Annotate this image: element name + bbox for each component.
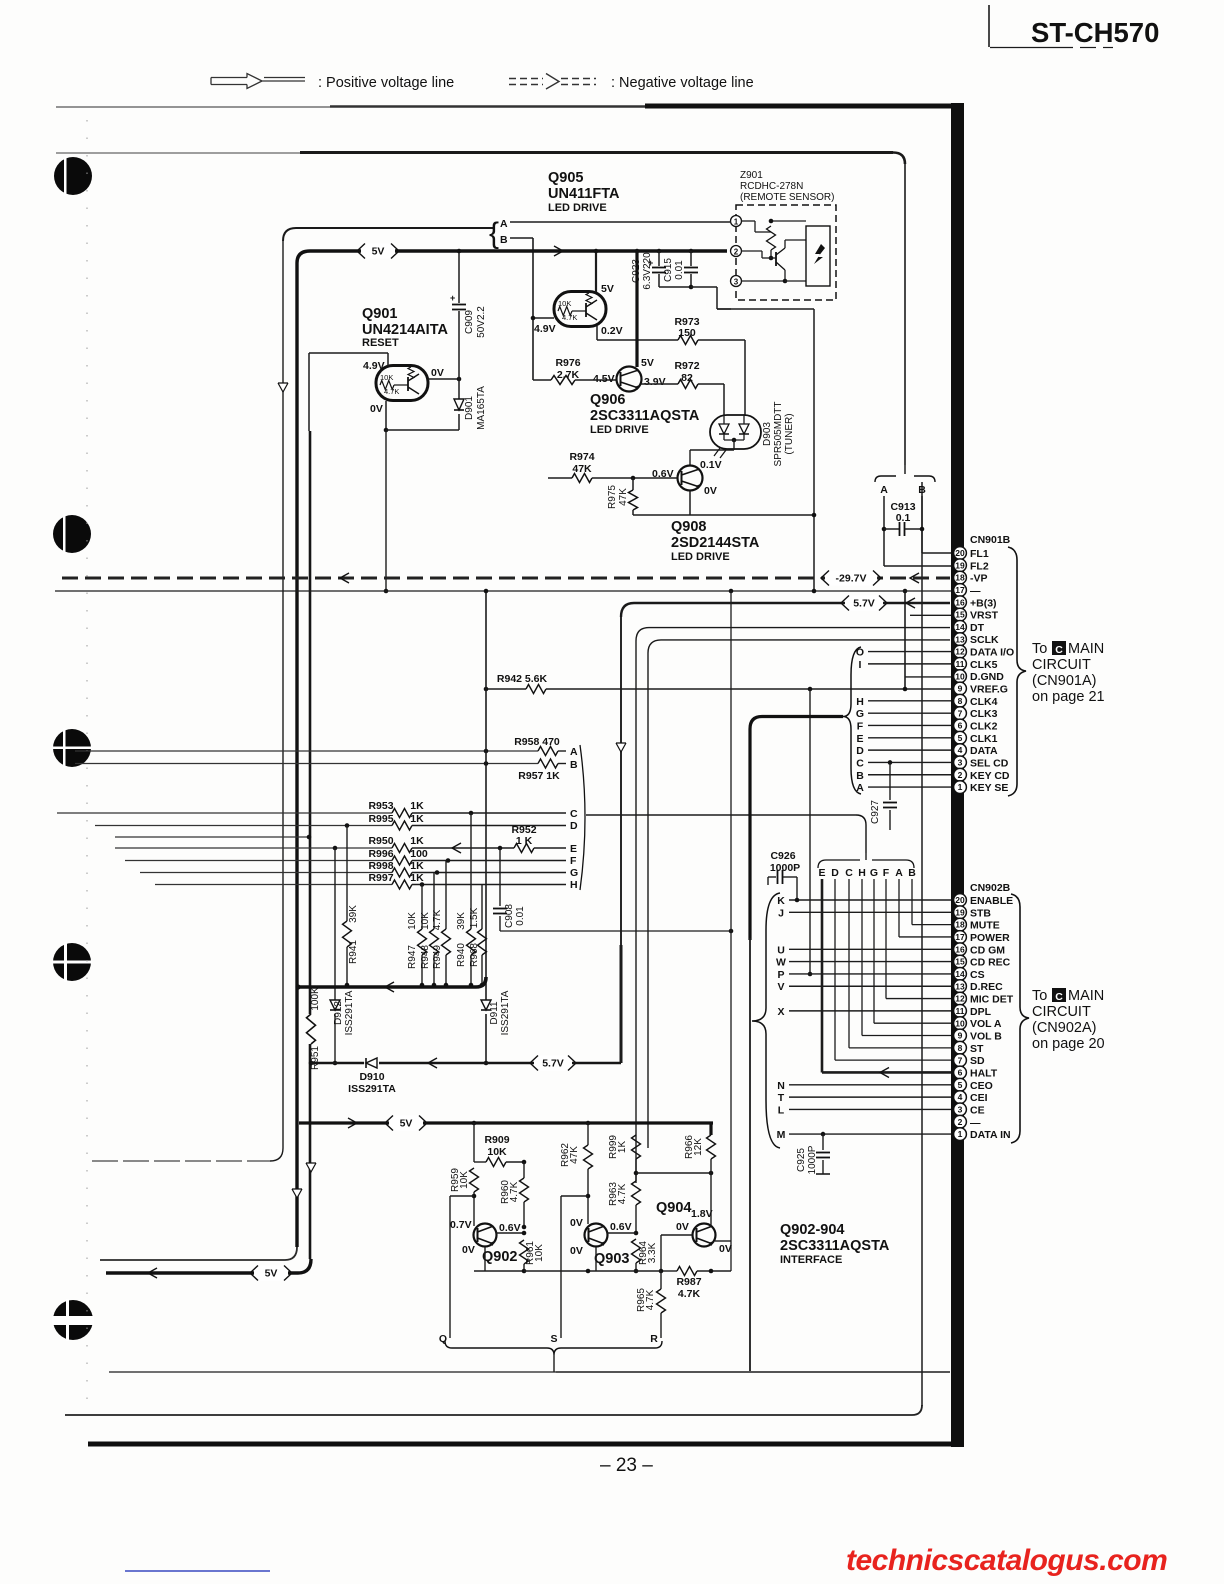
- label 4.9V Q901: [363, 360, 385, 372]
- title ST-CH570: [1031, 17, 1159, 48]
- svg-text:CLK5: CLK5: [970, 659, 998, 671]
- svg-text:3: 3: [958, 758, 963, 768]
- frame bottom thin line: [65, 1405, 922, 1415]
- arrow on 5.7V rail: [906, 598, 915, 608]
- svg-text:0V: 0V: [431, 367, 444, 379]
- svg-text:0.01: 0.01: [674, 260, 685, 280]
- title separator vertical line: [989, 5, 1113, 48]
- label C909: [464, 306, 487, 338]
- svg-text:4.7K: 4.7K: [384, 387, 399, 396]
- svg-text:B: B: [856, 770, 864, 782]
- svg-text:150: 150: [678, 327, 696, 339]
- svg-text:DATA I/O: DATA I/O: [970, 647, 1014, 659]
- svg-text:CLK3: CLK3: [970, 708, 998, 720]
- wire Q904 collector: [710, 1173, 712, 1226]
- node B top to CN902B pin 18: [908, 867, 951, 925]
- letter A mid: [570, 746, 578, 758]
- svg-text:POWER: POWER: [970, 932, 1010, 944]
- svg-text:4.9V: 4.9V: [534, 323, 556, 335]
- wire D.GND stub: [905, 676, 951, 678]
- CN901B pin 9 VREF.G: [954, 682, 1008, 695]
- wire C-bottom to Z901 pin3: [659, 281, 731, 309]
- svg-text:0V: 0V: [570, 1217, 583, 1229]
- Z901 pin 3: [731, 276, 742, 287]
- svg-text:ISS291TA: ISS291TA: [348, 1083, 396, 1095]
- label 0.2V Q905: [601, 325, 623, 337]
- arrow on x312: [306, 1163, 316, 1172]
- label R968 1.5K: [469, 907, 480, 967]
- CN902B pin 15 CD REC: [954, 955, 1011, 968]
- CN901B pin 12 DATA I/O: [954, 645, 1015, 658]
- wire x422 with R947: [418, 885, 427, 988]
- svg-text:W: W: [776, 957, 786, 969]
- labels Q902 voltages: [450, 1219, 521, 1256]
- CN902B pin 20 ENABLE: [954, 894, 1014, 907]
- wire left fade horizontal y1161: [92, 1160, 270, 1162]
- Z901 internals: [741, 219, 830, 286]
- wire DT rail: [636, 628, 950, 641]
- svg-text:47K: 47K: [618, 488, 629, 506]
- registration mark 2: [53, 514, 91, 554]
- svg-text:3: 3: [958, 1105, 963, 1115]
- svg-text:D: D: [856, 745, 864, 757]
- label R964 3.3K: [638, 1241, 658, 1265]
- legend positive voltage line text: [318, 75, 454, 91]
- bracket CN901B letters: [843, 647, 861, 794]
- label R957 1K: [518, 770, 560, 782]
- wire Q905 emitter down: [597, 326, 652, 340]
- node I to CN901B pin 11: [859, 659, 951, 671]
- arrow on bottom 5V: [148, 1268, 157, 1278]
- label R947 10K: [407, 912, 418, 969]
- svg-text:5V: 5V: [265, 1268, 278, 1280]
- svg-text:C923: C923: [631, 259, 642, 283]
- svg-text:E: E: [570, 843, 577, 855]
- resistor R964: [632, 1239, 641, 1273]
- svg-text:C915: C915: [663, 258, 674, 282]
- node W to CN902B pin 15: [776, 957, 951, 969]
- svg-text:FL1: FL1: [970, 548, 989, 560]
- svg-text:2SD2144STA: 2SD2144STA: [671, 535, 760, 551]
- svg-text:5.7V: 5.7V: [853, 598, 875, 610]
- svg-text:M: M: [777, 1129, 786, 1141]
- label R949 4.7K: [432, 909, 443, 969]
- node E top to CN902B pin 6: [818, 867, 951, 1072]
- svg-text:S: S: [550, 1333, 557, 1345]
- svg-text:4.7K: 4.7K: [562, 313, 577, 322]
- watermark technicscatalogus.com: [846, 1544, 1167, 1577]
- svg-text:1K: 1K: [410, 860, 424, 872]
- tag -29.7V: [821, 571, 881, 586]
- svg-text:C925: C925: [796, 1148, 807, 1172]
- svg-text:A: A: [570, 746, 578, 758]
- label R909 10K: [484, 1134, 509, 1158]
- label R987 4.7K: [676, 1276, 701, 1300]
- svg-text:4.7K: 4.7K: [509, 1181, 520, 1202]
- wire Q905 collector to 5V: [594, 249, 599, 292]
- svg-text:LED DRIVE: LED DRIVE: [548, 202, 607, 214]
- Z901 pin 1: [731, 216, 742, 227]
- svg-text:0.7V: 0.7V: [450, 1219, 472, 1231]
- svg-text:(TUNER): (TUNER): [784, 413, 795, 454]
- node O to CN901B pin 12: [856, 647, 951, 659]
- legend positive voltage line symbol: [211, 74, 305, 89]
- tag 5.7V: [841, 596, 887, 611]
- svg-text:B: B: [570, 759, 578, 771]
- resistor R965: [657, 1271, 666, 1338]
- svg-text:5: 5: [958, 733, 963, 743]
- resistor R973: [652, 336, 745, 417]
- arrow on x297: [292, 1189, 302, 1198]
- CN901B pin 3 SEL CD: [954, 756, 1009, 769]
- svg-text:KEY SE: KEY SE: [970, 782, 1008, 794]
- node M to CN902B pin 1: [777, 1129, 951, 1141]
- label R995 1K: [368, 813, 424, 825]
- svg-text:: Negative voltage line: : Negative voltage line: [611, 75, 754, 91]
- CN902B pin 17 POWER: [954, 931, 1010, 944]
- transistor Q901: [376, 366, 428, 401]
- svg-text:Z901: Z901: [740, 170, 763, 181]
- wire Q903 collector: [607, 1232, 636, 1234]
- capacitor C913: [882, 522, 925, 536]
- svg-text:4.7K: 4.7K: [432, 909, 443, 930]
- svg-text:1K: 1K: [410, 813, 424, 825]
- svg-text:47K: 47K: [572, 463, 592, 475]
- svg-text:19: 19: [955, 560, 965, 570]
- CN901B pin 4 DATA: [954, 744, 998, 757]
- svg-text:5V: 5V: [601, 283, 614, 295]
- svg-text:13: 13: [955, 981, 965, 991]
- svg-text:T: T: [778, 1092, 785, 1104]
- wire 5V top thick y251: [297, 251, 727, 263]
- svg-text:15: 15: [955, 957, 965, 967]
- svg-text:CD REC: CD REC: [970, 957, 1011, 969]
- node C to CN901B pin 3: [856, 757, 951, 769]
- svg-text:4.9V: 4.9V: [363, 360, 385, 372]
- svg-text:0.1V: 0.1V: [700, 459, 722, 471]
- capacitor C925: [816, 1132, 830, 1174]
- svg-text:R950: R950: [368, 835, 393, 847]
- svg-text:1K: 1K: [410, 835, 424, 847]
- svg-text:R997: R997: [368, 872, 393, 884]
- label Q905: [548, 170, 620, 214]
- svg-text:5: 5: [958, 1080, 963, 1090]
- label R953 1K: [368, 800, 424, 812]
- left margin dotted artifact: [86, 120, 88, 1400]
- svg-text:CIRCUIT: CIRCUIT: [1032, 1004, 1091, 1020]
- svg-text:0V: 0V: [676, 1221, 689, 1233]
- CN902B pin 2 —: [954, 1115, 981, 1128]
- wire x312 long vertical (Q901 box to bottom 5V): [309, 353, 310, 1259]
- resistor R987: [659, 1267, 731, 1276]
- labels Q903 voltages: [570, 1217, 632, 1257]
- svg-text:R974: R974: [569, 451, 594, 463]
- svg-text:D912: D912: [333, 1001, 344, 1025]
- svg-text:+: +: [450, 293, 455, 303]
- CN902B pin 9 VOL B: [954, 1029, 1003, 1042]
- capacitor C923: [648, 249, 666, 287]
- wire D903 to Q908 collector: [690, 440, 734, 465]
- svg-text:Q901: Q901: [362, 306, 397, 322]
- svg-text:R949: R949: [432, 945, 443, 969]
- svg-text:CN901B: CN901B: [970, 534, 1011, 546]
- svg-text:10K: 10K: [534, 1244, 545, 1262]
- resistor R966: [707, 1123, 716, 1173]
- svg-text:VOL B: VOL B: [970, 1031, 1002, 1043]
- label 0.1V: [700, 459, 722, 471]
- node F top to CN902B pin 12: [883, 867, 951, 999]
- CN901B pin 7 CLK3: [954, 707, 998, 720]
- diode D901: [454, 249, 464, 430]
- svg-text:G: G: [870, 867, 878, 879]
- svg-text:R975: R975: [607, 485, 618, 509]
- svg-text:A: A: [880, 484, 888, 496]
- svg-text:12: 12: [955, 994, 965, 1004]
- wire rail G y872: [140, 868, 566, 877]
- svg-text:1.5K: 1.5K: [469, 907, 480, 928]
- svg-text:4.5V: 4.5V: [593, 373, 615, 385]
- svg-text:18: 18: [955, 920, 965, 930]
- svg-text:{: {: [489, 217, 499, 250]
- svg-text:DATA IN: DATA IN: [970, 1129, 1011, 1141]
- svg-text:R953: R953: [368, 800, 393, 812]
- svg-text:20: 20: [955, 548, 965, 558]
- svg-text:on page 21: on page 21: [1032, 689, 1105, 705]
- svg-text:17: 17: [955, 932, 965, 942]
- svg-text:4: 4: [958, 745, 963, 755]
- svg-text:47K: 47K: [569, 1146, 580, 1164]
- svg-text:R940: R940: [456, 943, 467, 967]
- wire x386 vertical to rail: [384, 430, 389, 593]
- legend negative voltage line symbol: [509, 74, 596, 90]
- label R941 39K: [348, 905, 359, 964]
- CN902B pin 11 DPL: [954, 1005, 992, 1018]
- wire x482 with R968: [478, 884, 487, 987]
- svg-text:-29.7V: -29.7V: [836, 573, 867, 585]
- wire -VP dashed rail: [62, 577, 950, 580]
- svg-text:C: C: [1055, 991, 1063, 1003]
- label R997 1K: [368, 872, 424, 884]
- svg-text:R957 1K: R957 1K: [518, 770, 560, 782]
- label Q904: [656, 1200, 691, 1216]
- resistor R909: [472, 1121, 527, 1167]
- svg-text:10K: 10K: [407, 912, 418, 930]
- wire rail H y884: [155, 880, 566, 889]
- svg-text:R968: R968: [469, 943, 480, 967]
- arrow on HALT wire: [880, 1067, 889, 1077]
- svg-text:VREF.G: VREF.G: [970, 684, 1008, 696]
- text To MAIN CIRCUIT CN902A: [1032, 988, 1105, 1052]
- label R963 4.7K: [608, 1182, 628, 1206]
- wire Q905 base from B net: [531, 316, 554, 321]
- svg-text:MIC DET: MIC DET: [970, 994, 1014, 1006]
- label R942 5.6K: [497, 673, 548, 685]
- CN902B pin 13 D.REC: [954, 980, 1003, 993]
- frame right thick bar: [951, 103, 964, 1447]
- wire x434 with R948: [430, 873, 439, 988]
- wire 5.7V vertical x621: [620, 617, 622, 1063]
- wire 5.7V rail y603: [621, 603, 950, 617]
- label 4.5V: [593, 373, 615, 385]
- label R973 150: [674, 316, 699, 339]
- svg-text:U: U: [777, 944, 785, 956]
- svg-text:K: K: [777, 895, 785, 907]
- node G top to CN902B pin 10: [870, 867, 951, 1023]
- svg-text:8: 8: [958, 696, 963, 706]
- svg-text:100: 100: [410, 848, 428, 860]
- svg-text:50V2.2: 50V2.2: [476, 306, 487, 338]
- svg-text:C926: C926: [770, 850, 795, 862]
- svg-text:KEY CD: KEY CD: [970, 770, 1010, 782]
- svg-text:INTERFACE: INTERFACE: [780, 1254, 842, 1266]
- wire x335 vertical to D912: [334, 848, 336, 1000]
- svg-text:R: R: [650, 1333, 658, 1345]
- registration mark 5: [52, 1299, 94, 1341]
- letter C mid: [570, 808, 578, 820]
- wire Q904 emitter: [715, 1240, 731, 1242]
- tag 5.7V bottom: [530, 1056, 576, 1071]
- svg-text:L: L: [778, 1104, 785, 1116]
- CN902B pin 4 CEI: [954, 1091, 988, 1104]
- svg-text:SEL CD: SEL CD: [970, 757, 1009, 769]
- svg-text:ISS291TA: ISS291TA: [344, 990, 355, 1035]
- wire S node: [561, 1196, 588, 1338]
- label C923: [631, 252, 653, 290]
- CN902B pin 10 VOL A: [954, 1017, 1002, 1030]
- svg-text:2SC3311AQSTA: 2SC3311AQSTA: [780, 1238, 890, 1254]
- svg-text:CE: CE: [970, 1104, 985, 1116]
- svg-text:(REMOTE SENSOR): (REMOTE SENSOR): [740, 192, 834, 203]
- node H top to CN902B pin 9: [858, 867, 951, 1036]
- CN902B pin 3 CE: [954, 1103, 985, 1116]
- svg-text:G: G: [856, 708, 864, 720]
- label R961 10K: [525, 1241, 545, 1265]
- svg-text:10K: 10K: [420, 912, 431, 930]
- brace A B top: [489, 217, 508, 250]
- svg-text:1000P: 1000P: [807, 1145, 818, 1174]
- svg-text:0V: 0V: [704, 485, 717, 497]
- legend negative voltage line text: [611, 75, 754, 91]
- capacitor C927: [883, 760, 897, 830]
- label R962 47K: [560, 1143, 580, 1167]
- CN902B pin 14 CS: [954, 968, 985, 981]
- svg-text:15: 15: [955, 610, 965, 620]
- label C926 1000P: [770, 850, 800, 874]
- node V to CN902B pin 13: [777, 981, 951, 993]
- resistor R962: [584, 1121, 593, 1224]
- brace CN901B to main: [1008, 547, 1026, 796]
- svg-text:3: 3: [734, 278, 739, 287]
- svg-text:7: 7: [958, 708, 963, 718]
- node J to CN902B pin 19: [778, 907, 951, 919]
- wire node y1173: [636, 1171, 713, 1176]
- svg-text:LED DRIVE: LED DRIVE: [671, 551, 730, 563]
- svg-text:F: F: [857, 720, 864, 732]
- label C908 0.01: [504, 904, 526, 928]
- CN902B pin 7 SD: [954, 1054, 985, 1067]
- svg-text:technicscatalogus.com: technicscatalogus.com: [846, 1544, 1167, 1577]
- wire rail y923: [500, 929, 733, 934]
- thick bus y987: [295, 977, 486, 992]
- svg-text:10K: 10K: [558, 299, 571, 308]
- wire Q904 base: [661, 1235, 692, 1271]
- wire Q902 emitter bottom: [474, 1247, 526, 1273]
- svg-text:—: —: [970, 585, 981, 597]
- svg-text:ST-CH570: ST-CH570: [1031, 17, 1159, 48]
- wire SCLK rail: [648, 640, 950, 653]
- svg-text:D: D: [570, 820, 578, 832]
- transistor Q904: [693, 1224, 716, 1247]
- svg-text:Q904: Q904: [656, 1200, 691, 1216]
- svg-text:D901: D901: [464, 396, 475, 420]
- diode D910: [366, 1058, 377, 1068]
- svg-text:0.01: 0.01: [515, 906, 526, 926]
- wire bottom 5V thick y1273: [106, 1259, 311, 1273]
- svg-text:11: 11: [956, 1006, 965, 1016]
- svg-text:C909: C909: [464, 310, 475, 334]
- CN901B pin 5 CLK1: [954, 731, 998, 744]
- svg-text:5V: 5V: [372, 246, 385, 258]
- svg-text:39K: 39K: [348, 905, 359, 923]
- svg-text:1K: 1K: [617, 1141, 628, 1154]
- svg-text:CIRCUIT: CIRCUIT: [1032, 657, 1091, 673]
- svg-text:11: 11: [956, 659, 965, 669]
- registration mark 1: [54, 156, 92, 196]
- label R: [650, 1333, 658, 1345]
- resistor R951: [307, 1014, 316, 1065]
- resistor R963: [632, 1181, 641, 1235]
- svg-text:R942 5.6K: R942 5.6K: [497, 673, 548, 685]
- wire SCLK vertical x648: [647, 653, 649, 1148]
- resistor R999: [632, 1135, 641, 1181]
- CN902B pin 12 MIC DET: [954, 992, 1014, 1005]
- svg-text:H: H: [856, 696, 864, 708]
- label Q902-904 block: [780, 1222, 890, 1266]
- wire A to pin19: [884, 496, 951, 566]
- CN901B pin 20 FL1: [954, 547, 989, 560]
- svg-text:1K: 1K: [410, 872, 424, 884]
- wire rail C y813: [57, 809, 566, 818]
- wire rail A y751: [75, 747, 566, 756]
- svg-text:: Positive voltage line: : Positive voltage line: [318, 75, 454, 91]
- svg-text:R996: R996: [368, 848, 393, 860]
- svg-text:—: —: [970, 1117, 981, 1129]
- wire Q902 collector: [496, 1231, 526, 1236]
- svg-text:C908: C908: [504, 904, 515, 928]
- svg-text:F: F: [883, 867, 890, 879]
- labels Q904 voltages: [676, 1208, 732, 1255]
- wire bus to CN901B letters: [750, 717, 843, 941]
- svg-text:C: C: [570, 808, 578, 820]
- svg-text:1.8V: 1.8V: [691, 1208, 713, 1220]
- svg-text:2: 2: [958, 1117, 963, 1127]
- svg-text:B: B: [908, 867, 916, 879]
- wire x810 vertical: [808, 687, 813, 977]
- label 4.9V Q905: [534, 323, 556, 335]
- svg-text:N: N: [777, 1080, 785, 1092]
- svg-text:R951: R951: [310, 1046, 321, 1070]
- label R950 1K: [368, 835, 424, 847]
- CN901B pin 13 SCLK: [954, 633, 999, 646]
- svg-text:– 23 –: – 23 –: [600, 1455, 653, 1476]
- svg-text:I: I: [859, 659, 862, 671]
- wire DT vertical x636: [635, 641, 637, 1183]
- label R975 47K: [607, 485, 629, 509]
- CN901B pin 2 KEY CD: [954, 768, 1010, 781]
- tag 5V mid: [385, 1116, 427, 1131]
- svg-text:CN902B: CN902B: [970, 882, 1011, 894]
- letter H mid: [570, 879, 578, 891]
